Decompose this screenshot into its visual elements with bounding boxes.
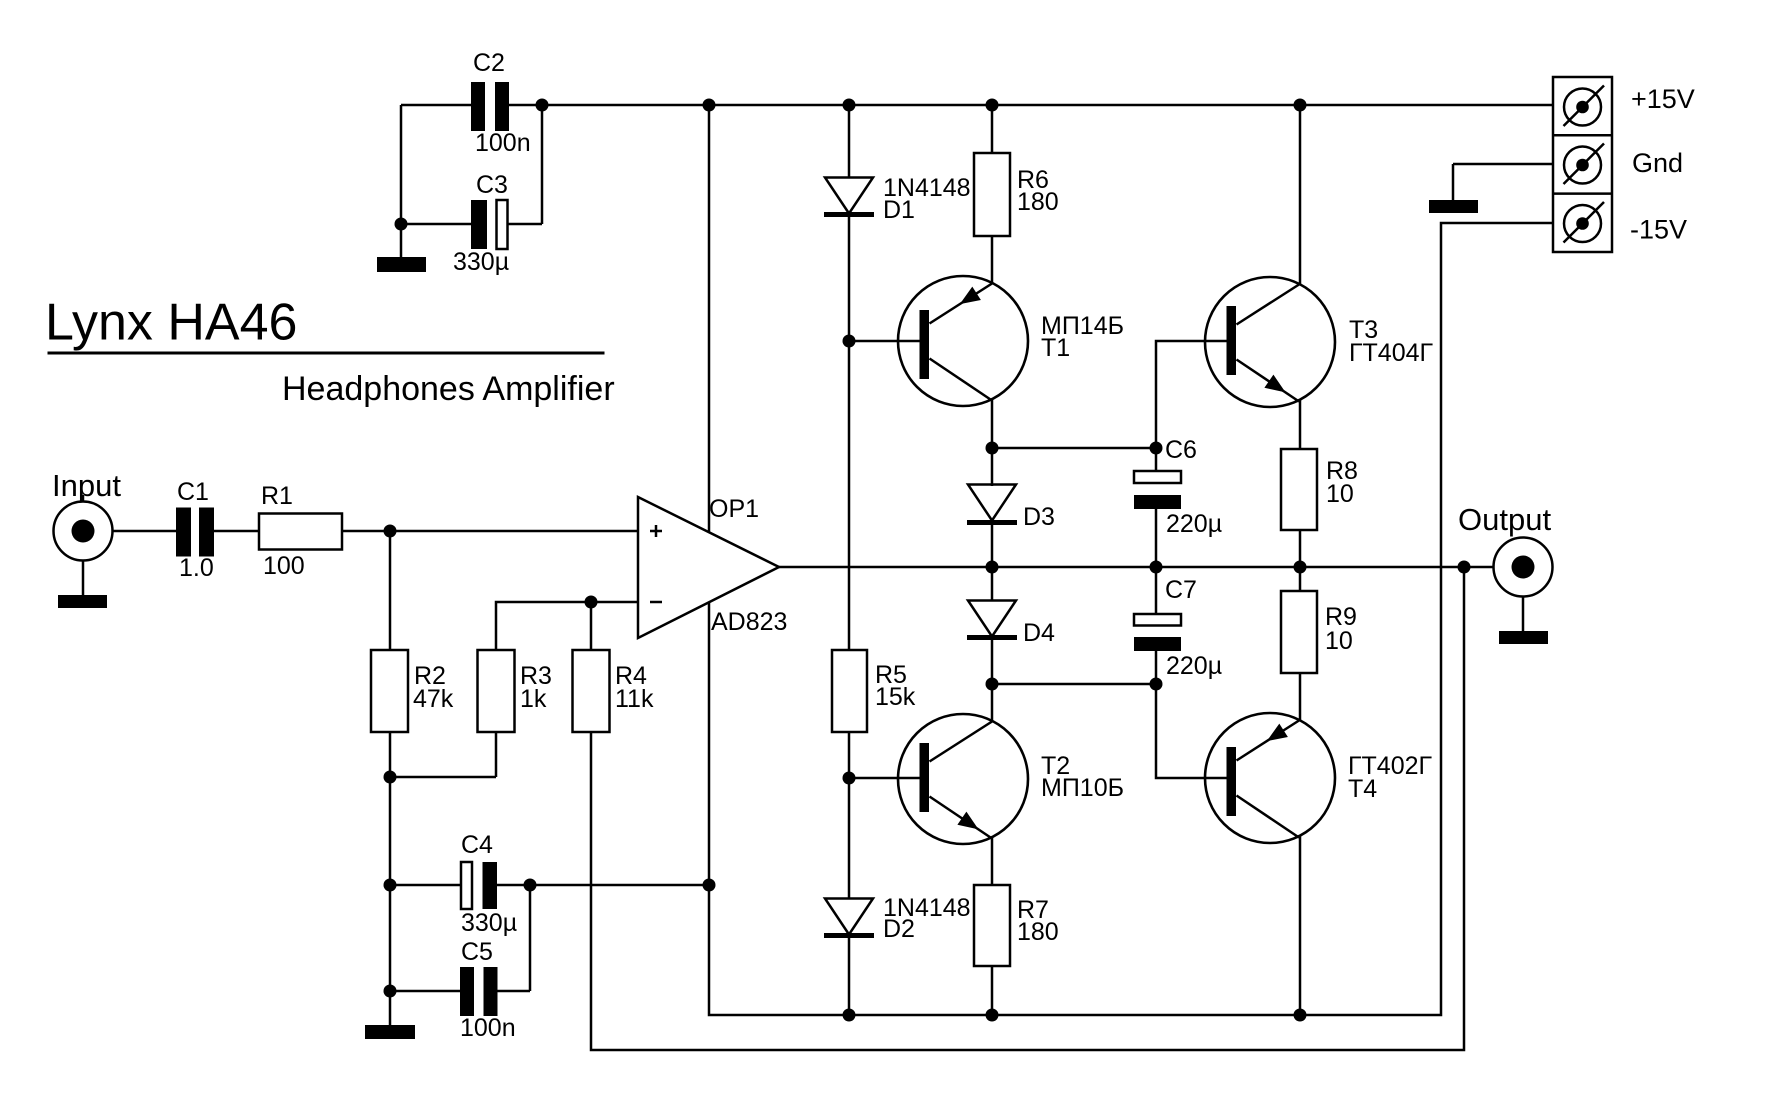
svg-text:100n: 100n	[460, 1014, 516, 1042]
svg-text:T4: T4	[1348, 775, 1377, 803]
svg-text:330µ: 330µ	[461, 909, 517, 937]
svg-text:330µ: 330µ	[453, 248, 509, 276]
svg-text:D3: D3	[1023, 503, 1055, 531]
svg-text:C2: C2	[473, 49, 505, 77]
svg-text:D2: D2	[883, 915, 915, 943]
svg-text:Output: Output	[1458, 502, 1551, 537]
svg-text:180: 180	[1017, 188, 1059, 216]
svg-text:C3: C3	[476, 171, 508, 199]
svg-text:C6: C6	[1165, 436, 1197, 464]
svg-text:Headphones Amplifier: Headphones Amplifier	[282, 370, 615, 408]
svg-text:D1: D1	[883, 196, 915, 224]
svg-text:220µ: 220µ	[1166, 510, 1222, 538]
svg-text:Gnd: Gnd	[1632, 148, 1683, 178]
svg-text:C1: C1	[177, 478, 209, 506]
svg-text:OP1: OP1	[709, 495, 759, 523]
svg-text:1.0: 1.0	[179, 554, 214, 582]
svg-text:C4: C4	[461, 831, 493, 859]
svg-text:10: 10	[1325, 627, 1353, 655]
svg-text:100n: 100n	[475, 129, 531, 157]
svg-text:AD823: AD823	[711, 608, 787, 636]
svg-text:11k: 11k	[615, 685, 654, 713]
svg-text:220µ: 220µ	[1166, 652, 1222, 680]
svg-text:47k: 47k	[413, 685, 454, 713]
svg-text:C7: C7	[1165, 576, 1197, 604]
svg-text:1k: 1k	[520, 685, 547, 713]
svg-text:МП10Б: МП10Б	[1041, 774, 1124, 802]
svg-text:R1: R1	[261, 482, 293, 510]
svg-text:D4: D4	[1023, 619, 1055, 647]
svg-text:180: 180	[1017, 918, 1059, 946]
svg-text:15k: 15k	[875, 683, 916, 711]
svg-text:-15V: -15V	[1630, 215, 1687, 245]
svg-text:100: 100	[263, 552, 305, 580]
svg-text:+15V: +15V	[1631, 84, 1695, 114]
svg-text:C5: C5	[461, 938, 493, 966]
svg-text:T1: T1	[1041, 334, 1070, 362]
svg-text:Input: Input	[52, 468, 121, 503]
svg-text:Lynx HA46: Lynx HA46	[45, 294, 297, 352]
svg-text:ГТ404Г: ГТ404Г	[1349, 339, 1434, 367]
svg-text:10: 10	[1326, 480, 1354, 508]
